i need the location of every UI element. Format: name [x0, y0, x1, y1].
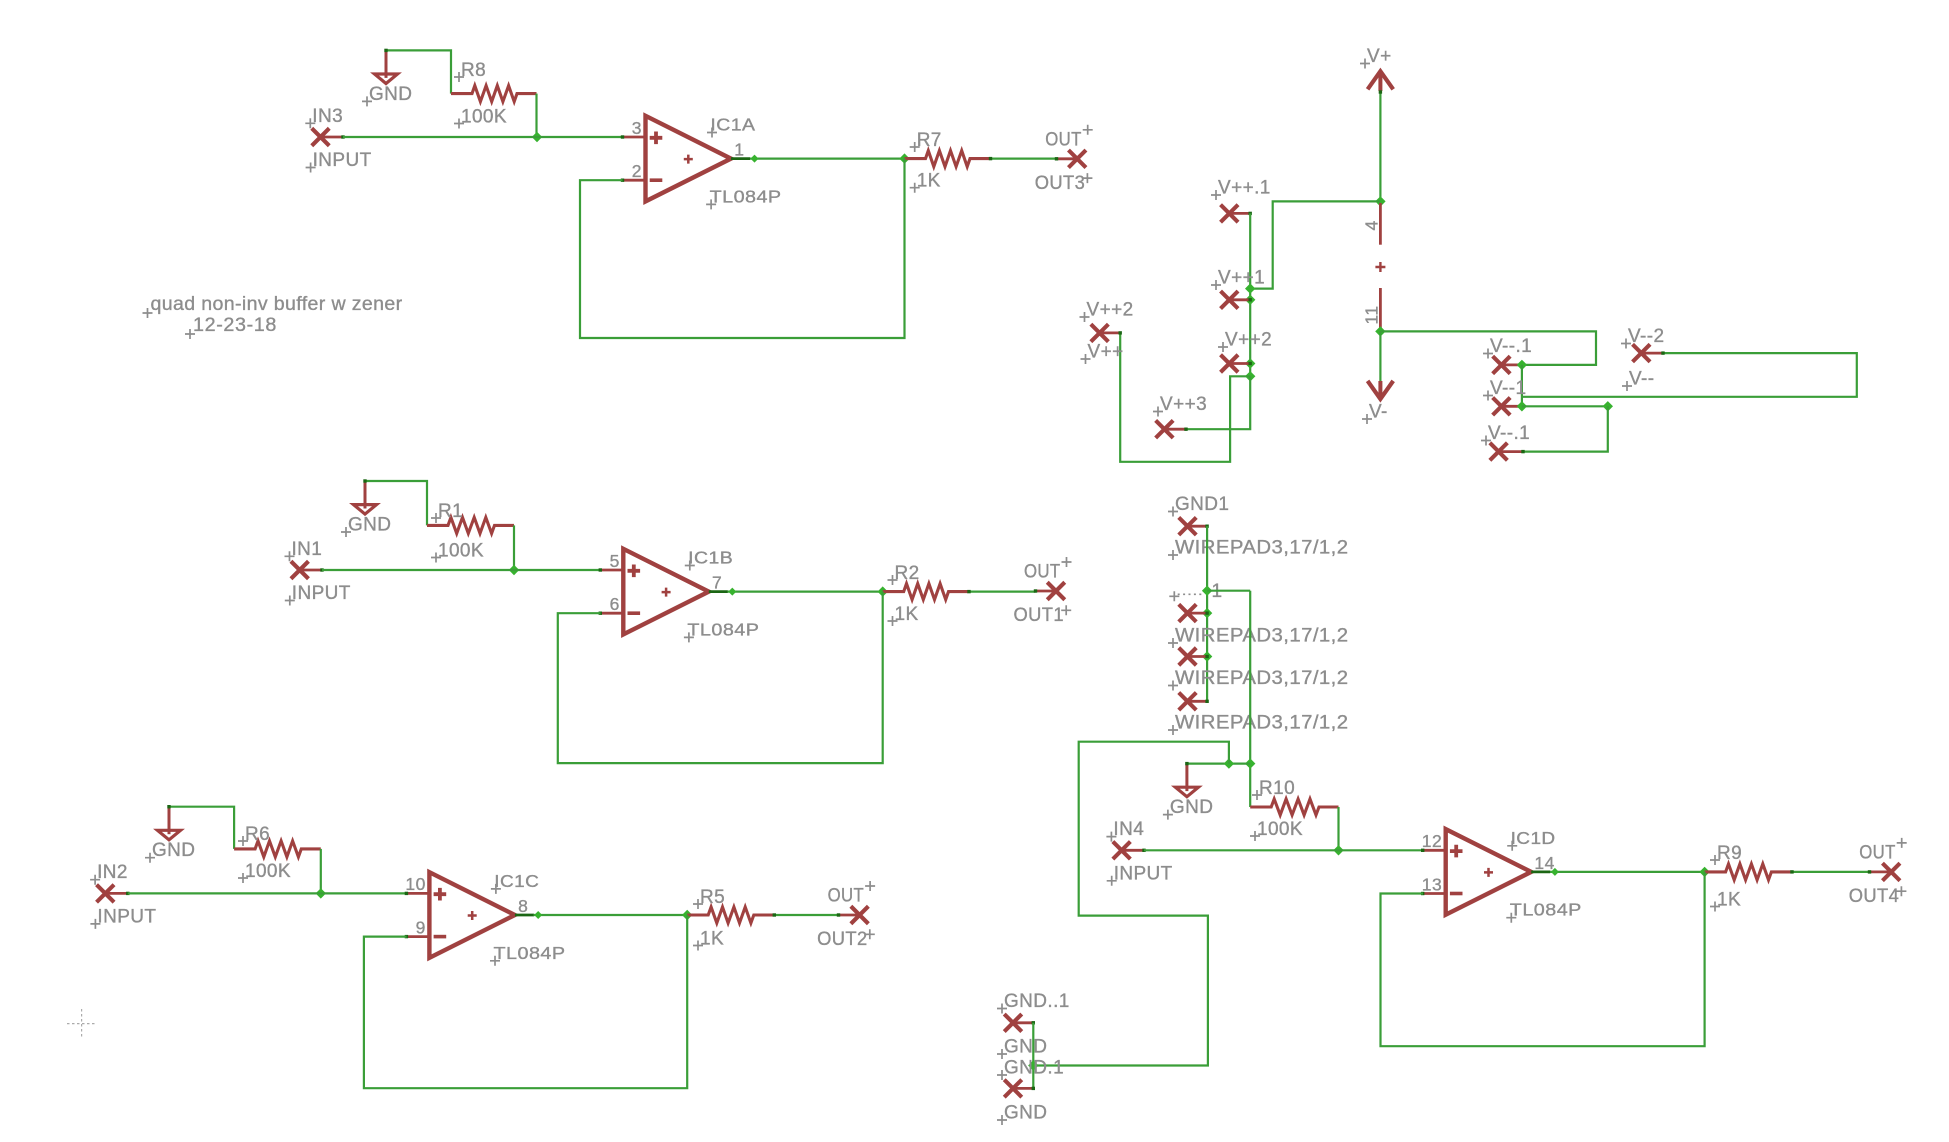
svg-text:GND..1: GND..1 [1004, 991, 1070, 1012]
svg-text:INPUT: INPUT [313, 150, 372, 171]
svg-text:V--.1: V--.1 [1488, 423, 1530, 444]
wire GND net loop to GND.1 [1033, 742, 1229, 1066]
pin IN2 (INPUT) [90, 862, 156, 929]
svg-text:V++1: V++1 [1218, 268, 1265, 289]
svg-text:IN4: IN4 [1113, 819, 1144, 840]
pad WIREPAD3,17/1,2 (4th) [1168, 693, 1349, 735]
svg-text:8: 8 [518, 896, 528, 916]
wire R7 to OUT3 [990, 158, 1057, 160]
svg-text:1: 1 [734, 140, 744, 160]
wire R9 to OUT4 [1791, 871, 1870, 873]
ground GND (IC1B) [341, 479, 391, 537]
svg-text:quad non-inv buffer w zener: quad non-inv buffer w zener [151, 294, 403, 315]
resistor R9 [1705, 843, 1791, 912]
svg-text:100K: 100K [438, 541, 484, 562]
svg-text:11: 11 [1362, 305, 1382, 324]
svg-text:5: 5 [610, 551, 620, 571]
svg-text:OUT: OUT [828, 886, 865, 907]
pad V++.1 [1211, 178, 1271, 223]
supply V+ arrow [1360, 46, 1393, 91]
svg-text:WIREPAD3,17/1,2: WIREPAD3,17/1,2 [1175, 538, 1349, 559]
wire feedback IC1C [364, 915, 687, 1088]
svg-text:R7: R7 [917, 130, 942, 151]
svg-text:TL084P: TL084P [710, 186, 782, 206]
svg-text:GND1: GND1 [1175, 494, 1229, 515]
wire output IC1D [1550, 871, 1705, 873]
junction [1551, 868, 1559, 876]
svg-text:V++3: V++3 [1160, 394, 1207, 415]
junction [1375, 326, 1385, 336]
resistor R10 [1250, 778, 1339, 841]
title text [143, 294, 403, 318]
svg-text:OUT4: OUT4 [1849, 886, 1900, 907]
wire feedback IC1D [1381, 872, 1705, 1046]
svg-text:WIREPAD3,17/1,2: WIREPAD3,17/1,2 [1175, 626, 1349, 647]
pad V--.1 (bottom) [1481, 423, 1530, 460]
svg-text:WIREPAD3,17/1,2: WIREPAD3,17/1,2 [1175, 668, 1349, 689]
resistor R8 [451, 60, 537, 129]
svg-text:INPUT: INPUT [97, 906, 156, 927]
plus mark between power pins [1375, 262, 1385, 272]
svg-text:7: 7 [712, 573, 722, 593]
junction [1375, 196, 1385, 206]
wire V-- vertical [1521, 365, 1523, 406]
svg-text:IN3: IN3 [312, 106, 343, 127]
wire output IC1A [750, 158, 905, 160]
net stub 1 with dotted leader [1169, 581, 1222, 602]
svg-text:IC1A: IC1A [710, 115, 755, 135]
svg-text:OUT: OUT [1859, 843, 1896, 864]
wire feedback IC1B [558, 592, 883, 764]
junction [1245, 358, 1255, 368]
wire IN2 to pin 10 [128, 892, 407, 894]
date text [185, 315, 277, 339]
wire output IC1C [534, 914, 688, 916]
net label GND.1 [997, 1058, 1064, 1081]
junction [1517, 401, 1527, 411]
junction [1202, 608, 1212, 618]
svg-text:TL084P: TL084P [494, 943, 566, 963]
svg-text:12-23-18: 12-23-18 [193, 315, 277, 336]
wire R1 to IN1 net [513, 525, 515, 570]
svg-text:3: 3 [632, 118, 642, 138]
junction [532, 132, 542, 142]
wire GND to R1 [365, 481, 427, 525]
op-amp IC1C [405, 871, 566, 966]
origin crosshair [67, 1009, 96, 1038]
wire R8 to IN3 net [535, 94, 537, 137]
ground GND (IC1C) [145, 805, 195, 863]
junction [1202, 651, 1212, 661]
svg-text:13: 13 [1422, 874, 1442, 894]
junction [878, 586, 888, 596]
svg-text:R2: R2 [895, 563, 920, 584]
svg-text:GND: GND [369, 84, 412, 105]
wire R5 to OUT2 [773, 914, 838, 916]
wire R10 riser [1249, 591, 1251, 807]
wire GND pads vertical [1032, 1023, 1034, 1089]
svg-text:R1: R1 [438, 501, 463, 522]
svg-text:1K: 1K [700, 929, 724, 950]
pad V--2 (V--) [1621, 326, 1665, 391]
wire GND to R6 [169, 807, 234, 849]
pad V--1 [1483, 378, 1526, 415]
svg-text:100K: 100K [461, 107, 507, 128]
svg-text:GND: GND [1004, 1037, 1047, 1058]
wire IN4 to pin 12 [1144, 849, 1423, 851]
pin OUT4 (OUT) [1849, 838, 1907, 907]
resistor R6 [234, 824, 321, 883]
resistor R1 [427, 501, 514, 563]
ground GND (IC1A) [362, 49, 412, 107]
junction [1245, 371, 1255, 381]
junction [1333, 845, 1343, 855]
svg-text:IN2: IN2 [97, 862, 128, 883]
pad V--.1 (top) [1483, 336, 1532, 374]
junction [1224, 758, 1234, 768]
wire V++ rail vertical [1249, 213, 1251, 376]
resistor R7 [905, 130, 990, 193]
svg-text:OUT2: OUT2 [817, 929, 868, 950]
junction [1245, 283, 1255, 293]
junction [1245, 295, 1255, 305]
resistor R2 [883, 563, 968, 626]
svg-text:IC1C: IC1C [494, 871, 539, 891]
wire V--2 loop [1522, 353, 1857, 397]
svg-text:GND: GND [348, 515, 391, 536]
svg-text:INPUT: INPUT [1114, 863, 1173, 884]
svg-text:GND.1: GND.1 [1004, 1058, 1064, 1079]
svg-text:V++: V++ [1088, 342, 1124, 363]
wire IN1 to pin 5 [322, 569, 601, 571]
svg-text:2: 2 [632, 161, 642, 181]
wire GND to rail (IC1D) [1187, 762, 1250, 764]
wire GND1 rail to R10 riser [1207, 590, 1250, 592]
op-amp IC1A [621, 115, 782, 210]
wire V--1 to V--.1 bottom [1522, 405, 1608, 407]
svg-text:V--2: V--2 [1628, 326, 1664, 347]
svg-text:OUT3: OUT3 [1035, 173, 1086, 194]
junction [1517, 360, 1527, 370]
junction [1245, 758, 1255, 768]
svg-text:10: 10 [405, 874, 425, 894]
junction [534, 911, 542, 919]
wire feedback IC1A [580, 159, 905, 338]
svg-text:IC1D: IC1D [1511, 828, 1556, 848]
pin IN3 (INPUT) [305, 106, 371, 173]
svg-text:1K: 1K [1717, 890, 1741, 911]
op-amp IC1D [1421, 828, 1582, 923]
svg-text:GND: GND [1004, 1103, 1047, 1124]
svg-text:100K: 100K [245, 861, 291, 882]
pad GND..1 (GND) [997, 991, 1070, 1059]
svg-text:R8: R8 [461, 60, 486, 81]
svg-text:R5: R5 [700, 887, 725, 908]
svg-text:V++2: V++2 [1225, 330, 1272, 351]
svg-text:R9: R9 [1717, 843, 1742, 864]
pad V++3 [1153, 394, 1207, 438]
svg-text:V++.1: V++.1 [1218, 178, 1271, 199]
ground GND (IC1D) [1163, 762, 1213, 820]
pad GND1 (WIREPAD3,17/1,2) [1168, 494, 1349, 560]
wire GND to R8 [386, 50, 451, 93]
svg-text:TL084P: TL084P [1510, 900, 1582, 920]
svg-text:GND: GND [1170, 797, 1213, 818]
svg-text:IN1: IN1 [292, 539, 323, 560]
wire GND1 rail vertical [1206, 526, 1208, 701]
junction [1603, 401, 1613, 411]
svg-text:TL084P: TL084P [687, 619, 759, 639]
pin OUT2 (OUT) [817, 881, 875, 950]
wire V++ rail to V++3 pad [1186, 376, 1250, 429]
pad V++2 (V++) [1080, 300, 1134, 365]
svg-text:12: 12 [1422, 831, 1442, 851]
junction [509, 565, 519, 575]
junction [682, 910, 692, 920]
pad V++1 [1211, 268, 1265, 309]
svg-text:IC1B: IC1B [688, 548, 733, 568]
svg-text:9: 9 [416, 917, 426, 937]
wire R6 to IN2 net [320, 849, 322, 894]
wire V+ to pin 4 [1379, 91, 1381, 201]
junction [1202, 586, 1212, 596]
pin IN1 (INPUT) [285, 539, 351, 606]
svg-text:OUT: OUT [1045, 130, 1082, 151]
svg-text:100K: 100K [1257, 819, 1303, 840]
pad GND.1 (GND) [997, 1080, 1047, 1125]
pad WIREPAD3,17/1,2 (3rd) [1168, 648, 1349, 691]
op-amp IC1B [599, 548, 760, 643]
wire R10 to IN4 net [1337, 807, 1339, 850]
junction [1699, 867, 1709, 877]
svg-text:R10: R10 [1259, 778, 1295, 799]
pad V++2 [1218, 330, 1272, 373]
resistor R5 [687, 887, 773, 951]
svg-text:V--1: V--1 [1490, 378, 1526, 399]
wire pin4 net to V++ rail [1252, 201, 1381, 288]
wire output IC1B [728, 590, 883, 592]
junction [751, 155, 759, 163]
pin OUT3 (OUT) [1035, 125, 1093, 194]
pin IN4 (INPUT) [1106, 819, 1172, 886]
svg-text:V+: V+ [1367, 46, 1392, 67]
pad WIREPAD3,17/1,2 (2nd) [1168, 604, 1349, 648]
svg-text:WIREPAD3,17/1,2: WIREPAD3,17/1,2 [1175, 713, 1349, 734]
wire R2 to OUT1 [968, 590, 1036, 592]
power pin 4 (V+) of IC1 [1362, 203, 1382, 245]
svg-text:V++2: V++2 [1087, 300, 1134, 321]
wire V++ rail to V++2 left pad [1120, 333, 1250, 462]
junction [316, 888, 326, 898]
wire IN3 to pin 3 [343, 136, 623, 138]
pin OUT1 (OUT) [1014, 557, 1072, 626]
svg-text:V--: V-- [1629, 369, 1654, 390]
svg-text:OUT: OUT [1024, 562, 1061, 583]
svg-text:INPUT: INPUT [292, 583, 351, 604]
junction [728, 588, 736, 596]
svg-text:R6: R6 [245, 824, 270, 845]
svg-text:GND: GND [152, 840, 195, 861]
supply V- arrow [1362, 381, 1393, 424]
junction [1028, 1060, 1038, 1070]
svg-text:14: 14 [1534, 853, 1554, 873]
power pin 11 (V-) of IC1 [1362, 288, 1382, 330]
svg-text:1K: 1K [895, 604, 919, 625]
svg-text:4: 4 [1362, 220, 1382, 230]
svg-text:1K: 1K [917, 171, 941, 192]
wire pin11 net to V--.1 [1380, 331, 1596, 365]
junction [899, 153, 909, 163]
wire pin11 to V- [1379, 331, 1381, 381]
svg-text:OUT1: OUT1 [1014, 605, 1065, 626]
svg-text:V--.1: V--.1 [1490, 336, 1532, 357]
svg-text:6: 6 [610, 594, 620, 614]
